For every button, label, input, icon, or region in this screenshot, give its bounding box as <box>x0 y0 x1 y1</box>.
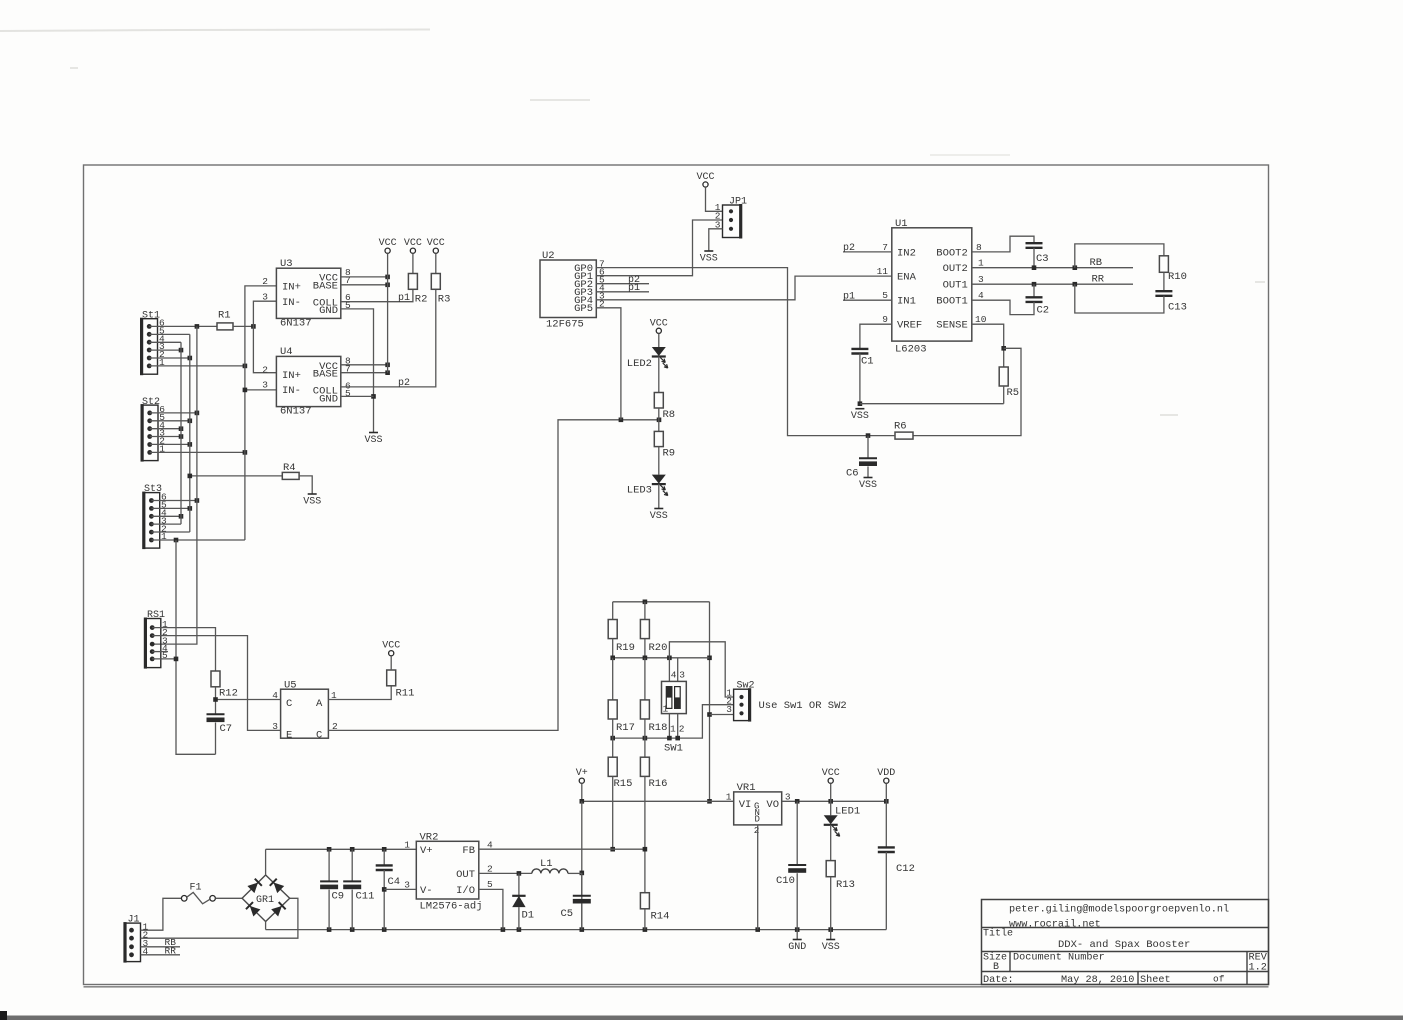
wire VCC to R2 <box>412 253 414 273</box>
wire SW1 pin1 drop <box>668 714 670 739</box>
connector JP1 <box>715 196 747 238</box>
svg-text:3: 3 <box>262 380 268 391</box>
svg-text:BOOT1: BOOT1 <box>936 296 968 308</box>
wire St3 pin1 <box>151 539 245 541</box>
svg-text:IN+: IN+ <box>282 370 301 382</box>
svg-text:LED1: LED1 <box>835 806 860 818</box>
svg-text:2: 2 <box>679 724 685 735</box>
wire GP4 pin3 to U1 ENA <box>596 276 892 300</box>
wire St3 pin1 down to RS1 pin5 and C7 loop <box>176 540 216 754</box>
svg-text:R5: R5 <box>1007 387 1020 399</box>
wire V+ rail to VR1 <box>582 800 734 802</box>
resistor R3 <box>431 274 440 290</box>
capacitor C11 <box>351 849 353 881</box>
svg-text:of: of <box>1213 974 1225 985</box>
svg-text:R3: R3 <box>438 294 451 306</box>
svg-text:3: 3 <box>726 704 732 715</box>
LED LED1 <box>830 801 832 815</box>
connector J1 <box>123 915 148 963</box>
wire GR1 bottom to ground rail <box>265 922 267 930</box>
svg-text:5: 5 <box>487 879 493 890</box>
fuse F1 <box>181 883 215 904</box>
wire U1 BOOT1 to C2 <box>972 300 1034 314</box>
wire St3 pin6 <box>151 500 197 502</box>
op-amp U3 optocoupler 6N137 <box>262 258 351 330</box>
switch SW1 <box>662 670 687 755</box>
svg-text:L1: L1 <box>540 858 553 870</box>
svg-text:C13: C13 <box>1168 302 1187 314</box>
svg-text:R19: R19 <box>616 642 635 654</box>
svg-text:OUT2: OUT2 <box>943 263 968 275</box>
svg-text:SENSE: SENSE <box>936 320 968 332</box>
svg-text:GP5: GP5 <box>574 303 593 315</box>
wire L1 to V+ node <box>568 872 582 874</box>
wire SW1 pin4 riser <box>668 658 670 682</box>
wire R14 to ground rail <box>644 909 646 930</box>
resistor R1 <box>217 323 233 330</box>
svg-text:R18: R18 <box>649 722 668 734</box>
svg-text:St1: St1 <box>142 310 160 321</box>
svg-text:VR1: VR1 <box>737 782 756 794</box>
svg-text:4: 4 <box>272 690 278 701</box>
capacitor C3 <box>1026 243 1043 248</box>
page bottom scanner band <box>0 1016 1403 1021</box>
LED LED3 <box>652 475 666 484</box>
svg-text:VSS: VSS <box>303 497 321 508</box>
wire RS1 pin5 <box>152 658 176 660</box>
wire VDD to C12 and rail corner <box>885 783 887 847</box>
wire SW1 pin4 loop to Sw2 pin1 <box>669 642 733 697</box>
resistor R16 <box>644 738 646 757</box>
bridge rectifier GR1 <box>242 875 290 922</box>
svg-text:R4: R4 <box>283 462 296 474</box>
svg-text:V-: V- <box>420 885 433 897</box>
svg-text:U3: U3 <box>280 258 293 270</box>
wire VSS junction to R5 bottom <box>860 403 1004 405</box>
svg-text:VSS: VSS <box>364 435 382 446</box>
svg-text:C5: C5 <box>561 908 574 920</box>
wire VCC to JP1 pin1 <box>706 187 723 211</box>
svg-text:VSS: VSS <box>851 411 869 422</box>
wire V+ input rail to VR2 <box>266 848 417 850</box>
svg-text:R9: R9 <box>663 448 676 460</box>
resistor R2 <box>408 274 417 290</box>
wire U1 IN2 stub net p2 <box>843 251 892 253</box>
svg-text:F1: F1 <box>190 883 202 894</box>
wire VR2 I/O pin5 to ground rail <box>479 889 503 929</box>
wire U3 pin7 BASE stub <box>341 284 388 286</box>
svg-text:D: D <box>755 815 760 825</box>
wire LED1 to R13 <box>830 825 832 861</box>
svg-text:p1: p1 <box>843 291 855 302</box>
wire St2 pin2 <box>150 443 190 445</box>
svg-text:R17: R17 <box>616 722 635 734</box>
transistor U5 <box>272 680 338 742</box>
svg-text:St2: St2 <box>142 397 160 408</box>
wire R4 to VSS <box>299 476 312 494</box>
ground VSS below JP1 <box>704 250 713 252</box>
wire VCC to output line <box>830 783 832 801</box>
svg-text:12F675: 12F675 <box>546 319 584 331</box>
wire U1 VREF to C1 <box>860 324 892 349</box>
svg-text:R1: R1 <box>218 310 231 322</box>
svg-text:3: 3 <box>679 670 685 681</box>
svg-text:ENA: ENA <box>897 272 917 284</box>
wire VCC to R3 <box>435 253 437 273</box>
wire R19/R20 bottom net <box>612 639 614 658</box>
svg-text:R8: R8 <box>663 409 676 421</box>
svg-text:LED3: LED3 <box>627 485 652 497</box>
wire U3 pin8 VCC stub <box>341 276 388 278</box>
wire St1 pin3 <box>149 349 181 351</box>
wire SW1 pin3 riser <box>677 658 679 682</box>
svg-text:Title: Title <box>983 928 1013 940</box>
svg-text:L6203: L6203 <box>895 344 927 356</box>
wire St3 pin4 <box>151 515 181 517</box>
capacitor C5 <box>581 873 583 896</box>
wire U5 pin1 to R11 <box>328 686 391 700</box>
svg-text:6N137: 6N137 <box>280 406 312 418</box>
wire VR2 FB to R15/R14 <box>479 848 645 850</box>
wire C6 to VSS <box>867 466 869 477</box>
resistor R20 <box>644 602 646 620</box>
wire VCC to R11 <box>390 656 392 670</box>
svg-text:1.2: 1.2 <box>1249 963 1267 974</box>
svg-text:p1: p1 <box>628 283 640 294</box>
wire SENSE node to R6 right <box>913 348 1021 435</box>
scan artifact streaks <box>0 30 430 32</box>
svg-text:C: C <box>286 698 292 710</box>
svg-text:SW1: SW1 <box>664 743 683 755</box>
svg-text:LED2: LED2 <box>627 358 652 370</box>
svg-text:JP1: JP1 <box>729 196 747 207</box>
wire F1 to GR1 <box>215 897 242 899</box>
wire VCC to LED2 <box>658 333 660 347</box>
svg-text:GND: GND <box>788 942 806 953</box>
wire VR2 V- to C4 node <box>384 888 416 890</box>
resistor R15 <box>612 738 614 757</box>
wire R1 to U3 IN- net <box>233 325 253 327</box>
svg-text:R15: R15 <box>614 778 633 790</box>
H-bridge U1 L6203 <box>877 218 987 356</box>
wire R6 left to node <box>868 435 895 437</box>
wire bus pin6 vertical to RS1 pin3 <box>152 326 197 644</box>
svg-text:C7: C7 <box>220 723 233 735</box>
wire St2 pin4 <box>150 428 181 430</box>
wire GP3 pin4 stub net p1 <box>596 291 649 293</box>
wire U1 IN1 stub net p1 <box>843 299 892 301</box>
svg-text:BOOT2: BOOT2 <box>936 247 968 259</box>
capacitor C7 <box>207 713 225 715</box>
ground VSS below U3/U4 <box>369 432 378 434</box>
svg-text:3: 3 <box>262 292 268 303</box>
wire VR2 OUT to L1 <box>479 872 532 874</box>
svg-text:C2: C2 <box>1037 305 1050 317</box>
wire RS1 pin2 to U5 pin3 <box>152 636 280 731</box>
svg-text:IN-: IN- <box>282 385 301 397</box>
capacitor C1 <box>851 349 868 354</box>
svg-text:VSS: VSS <box>822 942 840 953</box>
wire C12 to ground rail <box>885 852 887 930</box>
wire RS1 pin1 to R12 <box>152 628 215 671</box>
capacitor C9 <box>328 849 330 881</box>
svg-text:4: 4 <box>671 670 677 681</box>
wire U4 pin6 COLL to R3, net p2 <box>341 289 436 387</box>
svg-text:LM2576-adj: LM2576-adj <box>420 901 483 913</box>
wire J1 pin3 net RB <box>141 946 181 948</box>
resistor R6 <box>895 432 913 439</box>
wire R17/R18/SW1 bottom net to Sw2 pin2 <box>613 705 734 738</box>
svg-text:GND: GND <box>319 305 338 317</box>
wire VR1 output to VDD node <box>782 800 887 802</box>
wire R13 to ground rail <box>830 877 832 930</box>
capacitor C2 <box>1026 297 1043 302</box>
wire St1 pin1 <box>149 365 245 367</box>
wire VCC rail to U3/U4 pins <box>387 253 389 372</box>
capacitor C6 <box>859 457 877 459</box>
svg-text:Date:: Date: <box>983 975 1014 986</box>
svg-text:IN2: IN2 <box>897 247 916 259</box>
svg-text:DDX- and Spax Booster: DDX- and Spax Booster <box>1058 939 1190 951</box>
wire J1 pin1 to F1 <box>141 898 182 930</box>
svg-text:C9: C9 <box>332 891 345 903</box>
wire R19/R20 top rail <box>613 601 710 603</box>
svg-text:BASE: BASE <box>313 369 338 381</box>
svg-text:U5: U5 <box>284 680 297 692</box>
wire R17 bottom <box>612 719 614 738</box>
wire JP1 pin3 to VSS <box>709 229 723 251</box>
svg-text:VR2: VR2 <box>420 832 439 844</box>
drawing border frame <box>84 165 1269 985</box>
svg-text:6N137: 6N137 <box>280 318 312 330</box>
wire Sw2 pin3 <box>710 714 734 716</box>
svg-text:R12: R12 <box>219 688 238 700</box>
wire LED3 to VSS <box>658 484 660 508</box>
svg-text:5: 5 <box>345 388 351 399</box>
wire pins2-5 net to R4 <box>190 475 282 477</box>
wire bus pins2-5 vertical <box>189 334 191 532</box>
svg-text:BASE: BASE <box>313 281 338 293</box>
svg-text:VREF: VREF <box>897 320 922 332</box>
wire rail down to V+ line <box>709 602 711 802</box>
connector St1 <box>140 310 165 375</box>
wire bus pins3-4 vertical <box>180 342 182 524</box>
wire St2 pin3 <box>150 436 181 438</box>
wire OUT1 to C2 <box>1033 284 1035 297</box>
svg-text:Document Number: Document Number <box>1013 952 1105 964</box>
wire R8 to junction <box>658 408 660 431</box>
svg-text:C6: C6 <box>846 468 859 480</box>
ground GND below rail <box>796 930 798 940</box>
svg-text:IN1: IN1 <box>897 296 916 308</box>
svg-text:R16: R16 <box>649 778 668 790</box>
capacitor C10 <box>796 801 798 865</box>
wire V+ vertical to C5 and ground rail <box>581 801 583 929</box>
wire U1 BOOT2 to C3 <box>972 236 1034 252</box>
wire R10 to C13 <box>1163 272 1165 291</box>
capacitor C12 <box>878 847 895 852</box>
connector Sw2 <box>726 680 754 721</box>
wire LED2 to R8 <box>658 357 660 393</box>
ground VSS below R4 <box>308 493 317 495</box>
ground VSS below C6 <box>864 477 873 479</box>
svg-text:OUT1: OUT1 <box>943 280 968 292</box>
wire C1 to VSS junction <box>859 354 861 404</box>
svg-text:3: 3 <box>272 721 278 732</box>
wire R9 to LED3 <box>658 447 660 475</box>
svg-text:OUT: OUT <box>456 869 475 881</box>
wire St1 pin6 to R1 <box>149 325 217 327</box>
connector St3 <box>142 484 167 549</box>
svg-text:U4: U4 <box>280 346 293 358</box>
wire bus pin1 vertical U3 IN+ to St3 pin1 <box>245 286 277 540</box>
resistor R8 <box>654 393 663 409</box>
svg-text:IN+: IN+ <box>282 282 301 294</box>
resistor R5 <box>999 367 1008 386</box>
svg-text:C3: C3 <box>1036 253 1049 265</box>
svg-text:1: 1 <box>726 792 732 803</box>
svg-text:R6: R6 <box>894 421 907 433</box>
wire U4 IN- <box>245 389 277 391</box>
svg-text:11: 11 <box>877 266 889 277</box>
wire V+ to rail <box>581 783 583 801</box>
wire St3 pin2 <box>151 531 189 533</box>
wire U4 pin5 GND stub <box>341 395 374 397</box>
svg-text:RB: RB <box>1090 257 1103 269</box>
svg-text:R14: R14 <box>651 911 670 923</box>
ground VSS below rail <box>830 930 832 940</box>
wire C7 bottom loop <box>215 723 217 755</box>
svg-text:FB: FB <box>462 845 475 857</box>
wire St2 pin6 <box>150 412 197 414</box>
svg-text:C11: C11 <box>356 891 375 903</box>
svg-text:I/O: I/O <box>456 885 475 897</box>
svg-text:St3: St3 <box>144 484 162 495</box>
inductor L1 <box>532 869 568 874</box>
svg-text:Use Sw1 OR SW2: Use Sw1 OR SW2 <box>759 700 847 712</box>
wire RS1 pin4 stub <box>152 651 168 653</box>
wire St1 pin5 <box>149 333 190 335</box>
svg-text:E: E <box>286 730 292 742</box>
wire C3 to OUT2 line <box>1033 248 1035 268</box>
wire R18 bottom <box>644 719 646 738</box>
svg-text:R11: R11 <box>396 688 415 700</box>
wire St2 pin5 <box>150 420 190 422</box>
svg-text:p1: p1 <box>398 293 410 304</box>
svg-text:1: 1 <box>670 724 676 735</box>
wire C13 to RR node <box>1075 284 1164 313</box>
svg-text:C1: C1 <box>861 356 874 368</box>
svg-text:RR: RR <box>165 945 177 956</box>
resistor R17 <box>612 658 614 700</box>
diode D1 <box>518 873 520 895</box>
regulator VR1 <box>726 782 791 836</box>
LED LED2 <box>652 347 666 356</box>
wire U3 IN- to U4 IN+ vertical <box>253 301 276 373</box>
wire U4 pin7 BASE stub <box>341 372 388 374</box>
svg-text:www.rocrail.net: www.rocrail.net <box>1009 919 1101 931</box>
svg-text:VO: VO <box>766 799 779 811</box>
svg-text:C: C <box>316 730 322 742</box>
wire R5 bottom <box>1003 386 1005 404</box>
wire GP2 pin5 stub net p2 <box>596 283 649 285</box>
resistor R19 <box>612 602 614 620</box>
svg-text:V+: V+ <box>420 845 433 857</box>
wire GP1 pin6 to JP1 pin2 <box>596 220 722 276</box>
svg-text:R2: R2 <box>415 294 428 306</box>
wire R12 to C7 junction and U5 pin4 <box>215 687 217 715</box>
resistor R4 <box>282 472 299 479</box>
wire GP0 pin7 to R6 node <box>596 268 868 436</box>
ground rail <box>266 929 887 931</box>
wire VR1 GND pin2 to ground rail <box>757 825 759 930</box>
wire U1 SENSE to R5 <box>972 324 1004 367</box>
resistor R18 <box>644 658 646 700</box>
svg-text:J1: J1 <box>128 915 140 926</box>
microcontroller U2 12F675 <box>540 250 605 330</box>
wire U4 pin8 VCC stub <box>341 364 388 366</box>
svg-text:Sheet: Sheet <box>1140 974 1171 986</box>
svg-text:1: 1 <box>404 840 410 851</box>
svg-text:VSS: VSS <box>700 254 718 265</box>
wire U5 pin2 long wire to LED divider <box>328 420 659 731</box>
svg-text:peter.giling@modelspoorgroepve: peter.giling@modelspoorgroepvenlo.nl <box>1009 904 1229 916</box>
wire J1 pin2 to GR1 right <box>141 898 298 938</box>
svg-text:GND: GND <box>319 393 338 405</box>
svg-text:p2: p2 <box>398 378 410 389</box>
svg-text:IN-: IN- <box>282 297 301 309</box>
svg-text:1: 1 <box>663 704 669 715</box>
svg-text:2: 2 <box>262 364 268 375</box>
svg-text:C10: C10 <box>776 875 795 887</box>
regulator VR2 LM2576-adj <box>404 832 493 913</box>
svg-text:May 28, 2010: May 28, 2010 <box>1061 975 1134 986</box>
wire U1 OUT1 net RR <box>972 283 1133 285</box>
wire U1 OUT2 net RB <box>972 267 1133 269</box>
connector RS1 <box>144 610 168 668</box>
wire node to C6 <box>867 436 869 459</box>
svg-text:R13: R13 <box>836 879 855 891</box>
resistor R9 <box>654 431 663 446</box>
svg-text:GR1: GR1 <box>256 895 274 906</box>
resistor R12 <box>211 671 220 687</box>
wire GR1 top to V+ input rail <box>265 849 267 875</box>
wire RB node to R10 <box>1075 244 1164 268</box>
wire U3 pin5 GND down to VSS <box>341 309 374 433</box>
wire St2 pin1 <box>150 451 245 453</box>
resistor R10 <box>1159 256 1168 272</box>
wire St1 pin2 <box>149 357 190 359</box>
ground VSS below LED3 <box>654 508 663 510</box>
svg-text:2: 2 <box>754 825 760 836</box>
capacitor C13 <box>1155 291 1172 296</box>
capacitor C4 <box>383 849 385 865</box>
svg-text:U2: U2 <box>542 250 555 262</box>
svg-text:U1: U1 <box>895 218 908 230</box>
ground VSS below C1 <box>855 408 864 410</box>
wire St3 pin5 <box>151 507 189 509</box>
resistor R11 <box>387 670 396 686</box>
wire R16 to R14 via FB corner <box>644 776 646 892</box>
svg-text:R10: R10 <box>1168 271 1187 283</box>
title block outline <box>982 900 1269 985</box>
wire SW1 pin2 drop <box>677 714 679 739</box>
resistor R13 <box>826 861 835 877</box>
resistor R14 <box>640 893 649 909</box>
svg-text:C4: C4 <box>388 876 401 888</box>
op-amp U4 optocoupler 6N137 <box>262 346 351 418</box>
connector St2 <box>141 397 166 462</box>
